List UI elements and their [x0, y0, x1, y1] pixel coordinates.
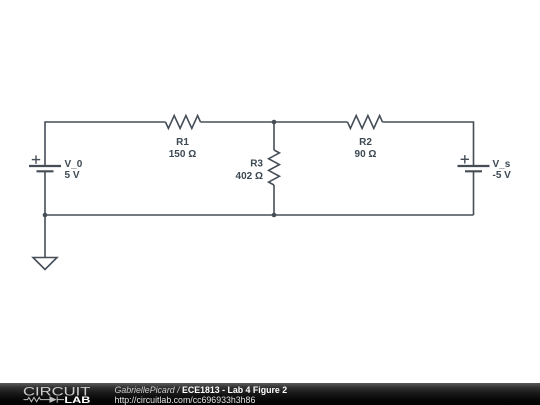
footer title line: [115, 385, 288, 395]
node A junction dot: [272, 120, 277, 125]
svg-text:90 Ω: 90 Ω: [355, 149, 377, 160]
wire R3 to bottom net: [273, 185, 275, 215]
wire ground stub: [44, 215, 46, 258]
footer url line: [115, 395, 256, 405]
CircuitLab logo: [0, 383, 100, 405]
node bottom R3 junction dot: [272, 213, 277, 218]
svg-text:R2: R2: [359, 137, 372, 148]
svg-text:402 Ω: 402 Ω: [236, 171, 263, 182]
svg-text:R3: R3: [250, 158, 263, 169]
wire bottom net: [45, 214, 474, 216]
V_0 plus sign: [32, 155, 40, 163]
svg-text:-5 V: -5 V: [493, 170, 512, 181]
logo diode triangle: [50, 396, 57, 403]
svg-text:150 Ω: 150 Ω: [169, 149, 196, 160]
svg-text:V_s: V_s: [493, 159, 511, 170]
resistor R3: [269, 150, 280, 185]
voltage source V_0 plates: [29, 166, 61, 171]
svg-text:V_0: V_0: [65, 159, 83, 170]
V_s plus sign: [461, 155, 469, 163]
wire V_s bottom lead: [473, 172, 475, 215]
node bottom-left junction dot: [43, 213, 48, 218]
wire R1 to R2 (through node A): [201, 121, 348, 123]
wire V_0 bottom lead: [44, 172, 46, 215]
wire top-right (R2 to V_s top lead): [383, 122, 474, 165]
svg-text:5 V: 5 V: [65, 170, 80, 181]
voltage source V_s plates: [458, 166, 490, 171]
wire node A to R3: [273, 122, 275, 150]
svg-text:LAB: LAB: [64, 395, 90, 405]
resistor R2: [348, 116, 383, 129]
resistor R1: [166, 116, 201, 129]
svg-text:R1: R1: [176, 137, 189, 148]
footer bar: [0, 383, 540, 405]
wire top-left (V_0 top lead to R1): [45, 122, 166, 165]
ground: [33, 258, 57, 270]
logo wire with resistor and diode: [24, 396, 65, 402]
